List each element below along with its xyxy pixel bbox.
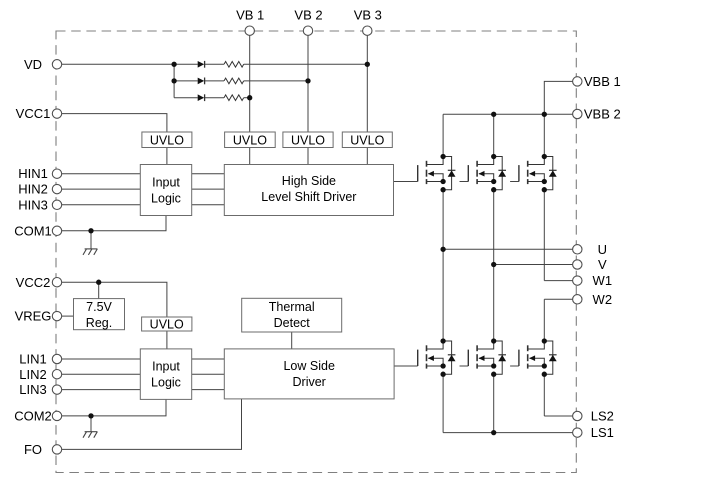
svg-text:VB 2: VB 2 (294, 7, 322, 22)
svg-text:Logic: Logic (151, 192, 181, 206)
svg-text:COM1: COM1 (14, 223, 52, 238)
svg-text:Thermal: Thermal (269, 300, 315, 314)
svg-text:7.5V: 7.5V (86, 300, 112, 314)
svg-text:LS1: LS1 (591, 425, 614, 440)
svg-text:Detect: Detect (274, 316, 311, 330)
svg-text:VCC2: VCC2 (16, 275, 51, 290)
svg-text:VD: VD (24, 57, 42, 72)
svg-text:V: V (598, 257, 607, 272)
svg-text:Driver: Driver (293, 375, 326, 389)
svg-text:Input: Input (152, 176, 180, 190)
svg-text:HIN3: HIN3 (18, 197, 48, 212)
svg-text:Logic: Logic (151, 375, 181, 389)
svg-text:UVLO: UVLO (350, 133, 384, 147)
svg-text:Level Shift Driver: Level Shift Driver (261, 190, 356, 204)
svg-text:W1: W1 (593, 273, 613, 288)
svg-text:VREG: VREG (15, 309, 52, 324)
svg-text:VB 1: VB 1 (236, 7, 264, 22)
svg-text:UVLO: UVLO (150, 318, 184, 332)
svg-text:U: U (598, 242, 607, 257)
svg-text:UVLO: UVLO (150, 133, 184, 147)
svg-text:VCC1: VCC1 (16, 106, 51, 121)
svg-text:HIN1: HIN1 (18, 166, 48, 181)
svg-text:High Side: High Side (282, 174, 336, 188)
svg-text:UVLO: UVLO (233, 133, 267, 147)
svg-text:HIN2: HIN2 (18, 182, 48, 197)
svg-text:W2: W2 (593, 292, 613, 307)
svg-text:VBB 1: VBB 1 (584, 74, 621, 89)
svg-text:FO: FO (24, 442, 42, 457)
svg-text:UVLO: UVLO (291, 133, 325, 147)
svg-text:LIN2: LIN2 (19, 367, 46, 382)
svg-text:VB 3: VB 3 (354, 7, 382, 22)
svg-text:COM2: COM2 (14, 408, 52, 423)
svg-text:LIN1: LIN1 (19, 352, 46, 367)
svg-text:Reg.: Reg. (86, 316, 112, 330)
svg-text:VBB 2: VBB 2 (584, 107, 621, 122)
svg-text:LIN3: LIN3 (19, 382, 46, 397)
svg-text:LS2: LS2 (591, 409, 614, 424)
svg-text:Low Side: Low Side (283, 359, 334, 373)
svg-text:Input: Input (152, 359, 180, 373)
